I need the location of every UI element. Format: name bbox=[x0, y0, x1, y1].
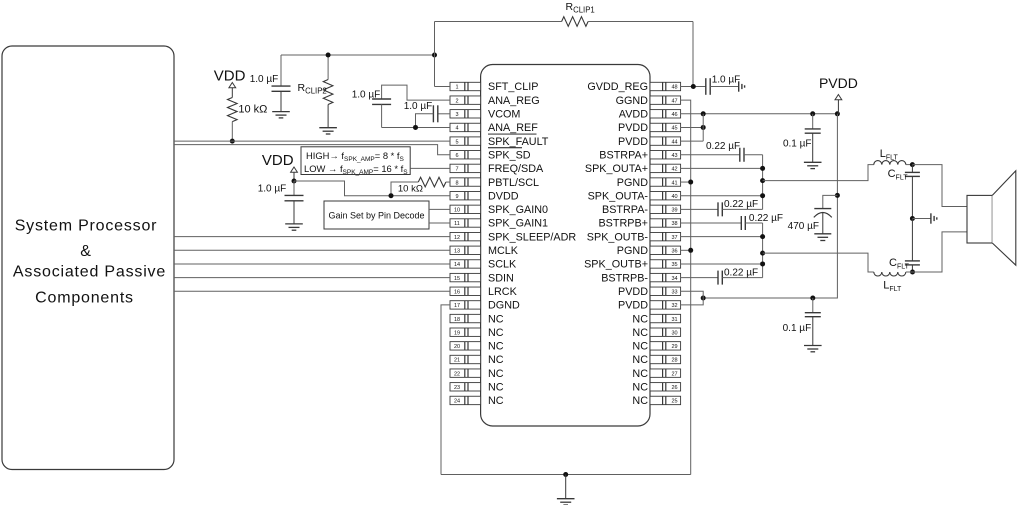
svg-text:SPK_SD: SPK_SD bbox=[488, 149, 531, 161]
svg-text:BSTRPA+: BSTRPA+ bbox=[599, 149, 648, 161]
svg-text:37: 37 bbox=[671, 235, 677, 241]
svg-text:13: 13 bbox=[454, 249, 460, 255]
label 0.22 uF B+ bbox=[749, 213, 783, 224]
capacitor 470uF bulk bbox=[814, 195, 838, 233]
junction filter B bbox=[910, 270, 915, 275]
svg-text:31: 31 bbox=[671, 317, 677, 323]
svg-text:19: 19 bbox=[454, 330, 460, 336]
svg-text:PGND: PGND bbox=[617, 177, 648, 189]
wire pin17 DGND bbox=[441, 305, 450, 475]
svg-text:3: 3 bbox=[455, 112, 458, 118]
svg-text:1: 1 bbox=[455, 85, 458, 91]
inductor LFLT B bbox=[874, 272, 913, 276]
svg-text:16: 16 bbox=[454, 289, 460, 295]
pin 45 PVDD bbox=[618, 122, 681, 134]
pin 36 PGND bbox=[617, 245, 681, 257]
ground DVDD cap bbox=[285, 201, 303, 230]
svg-text:48: 48 bbox=[671, 85, 677, 91]
pin 37 SPK_OUTB- bbox=[587, 231, 681, 243]
wire pin44 PVDD bbox=[681, 114, 704, 141]
wire pin41 PGND bbox=[681, 180, 694, 185]
wire pin9 DVDD bbox=[294, 181, 450, 198]
wire PVDD rail bbox=[701, 114, 840, 301]
svg-text:0.22 µF: 0.22 µF bbox=[724, 199, 758, 210]
wire pin35 SPK_OUTB+ bbox=[681, 263, 763, 265]
pin 39 BSTRPA- bbox=[602, 204, 681, 216]
label RCLIP1 bbox=[566, 1, 595, 15]
svg-text:17: 17 bbox=[454, 303, 460, 309]
svg-text:PVDD: PVDD bbox=[819, 75, 858, 91]
label 0.22 uF A+ bbox=[706, 141, 740, 152]
label CFLT A bbox=[888, 168, 909, 182]
svg-text:46: 46 bbox=[671, 112, 677, 118]
pin 33 PVDD bbox=[618, 286, 681, 298]
svg-text:4: 4 bbox=[455, 126, 458, 132]
annotation box sample rate bbox=[301, 147, 410, 176]
svg-text:27: 27 bbox=[671, 371, 677, 377]
pin 42 SPK_OUTA+ bbox=[585, 163, 681, 175]
wire output A to filter bbox=[763, 165, 874, 181]
speaker bbox=[967, 171, 1016, 266]
ground AVDD cap bbox=[804, 133, 822, 168]
wire speaker B bbox=[913, 232, 968, 272]
svg-text:14: 14 bbox=[454, 262, 460, 268]
pin 26 NC bbox=[632, 382, 680, 394]
pin 9 DVDD bbox=[450, 190, 519, 202]
capacitor 1.0uF ANA_REG bbox=[372, 99, 391, 127]
svg-text:0.22 µF: 0.22 µF bbox=[724, 268, 758, 279]
svg-text:SDIN: SDIN bbox=[488, 272, 514, 284]
capacitor 0.1uF PVDD bottom bbox=[805, 298, 821, 317]
node VDD supply 2 bbox=[262, 152, 298, 184]
svg-text:NC: NC bbox=[632, 395, 648, 407]
svg-text:12: 12 bbox=[454, 235, 460, 241]
svg-text:DGND: DGND bbox=[488, 300, 520, 312]
pin 41 PGND bbox=[617, 177, 681, 189]
pin 17 DGND bbox=[450, 300, 520, 312]
capacitor 0.22uF BSTRPB- bbox=[681, 271, 763, 285]
pin 16 LRCK bbox=[450, 286, 518, 298]
label 0.1 uF AVDD bbox=[783, 138, 812, 149]
svg-text:Gain Set by Pin Decode: Gain Set by Pin Decode bbox=[328, 211, 424, 221]
pin 43 BSTRPA+ bbox=[599, 149, 680, 161]
svg-text:30: 30 bbox=[671, 330, 677, 336]
svg-text:Associated Passive: Associated Passive bbox=[13, 264, 166, 281]
svg-text:Components: Components bbox=[35, 290, 134, 307]
svg-text:22: 22 bbox=[454, 371, 460, 377]
svg-text:20: 20 bbox=[454, 344, 460, 350]
svg-text:1.0 µF: 1.0 µF bbox=[250, 74, 279, 85]
junction filter mid bbox=[910, 216, 915, 221]
pin 44 PVDD bbox=[618, 136, 681, 148]
svg-text:28: 28 bbox=[671, 358, 677, 364]
svg-text:44: 44 bbox=[671, 139, 677, 145]
wire output B node bbox=[760, 223, 765, 278]
svg-text:NC: NC bbox=[632, 382, 648, 394]
resistor RCLIP2 bbox=[323, 55, 333, 128]
wire pin45 PVDD bbox=[681, 125, 706, 130]
pin 35 SPK_OUTB+ bbox=[584, 259, 681, 271]
svg-text:2: 2 bbox=[455, 98, 458, 104]
svg-text:0.1 µF: 0.1 µF bbox=[783, 323, 812, 334]
pin 25 NC bbox=[632, 395, 680, 407]
svg-text:7: 7 bbox=[455, 167, 458, 173]
wire pin6 SPK_SD bbox=[174, 145, 450, 155]
svg-text:BSTRPA-: BSTRPA- bbox=[602, 204, 648, 216]
capacitor CFLT B bbox=[905, 219, 920, 273]
pin 40 SPK_OUTA- bbox=[588, 190, 681, 202]
node VDD supply 1 bbox=[214, 68, 246, 98]
svg-text:PVDD: PVDD bbox=[618, 136, 648, 148]
label 0.1 uF PVDD bbox=[783, 323, 812, 334]
junction filter A bbox=[910, 162, 915, 167]
svg-text:32: 32 bbox=[671, 303, 677, 309]
svg-text:43: 43 bbox=[671, 153, 677, 159]
svg-text:VCOM: VCOM bbox=[488, 109, 520, 121]
pin 12 SPK_SLEEP/ADR bbox=[450, 231, 576, 243]
svg-text:10 kΩ: 10 kΩ bbox=[238, 104, 267, 116]
svg-text:470 µF: 470 µF bbox=[788, 221, 819, 232]
svg-text:NC: NC bbox=[632, 327, 648, 339]
pin 15 SDIN bbox=[450, 272, 514, 284]
svg-text:NC: NC bbox=[632, 313, 648, 325]
svg-text:DVDD: DVDD bbox=[488, 190, 519, 202]
pin 20 NC bbox=[450, 341, 504, 353]
svg-text:NC: NC bbox=[632, 354, 648, 366]
svg-text:SCLK: SCLK bbox=[488, 259, 517, 271]
pin 2 ANA_REG bbox=[450, 95, 540, 107]
system processor block bbox=[2, 46, 174, 470]
annotation box gain bbox=[324, 201, 429, 229]
svg-text:NC: NC bbox=[488, 368, 504, 380]
svg-text:SPK_GAIN1: SPK_GAIN1 bbox=[488, 218, 548, 230]
wire pin5 SPK_FAULT bbox=[174, 140, 450, 142]
label LFLT A bbox=[880, 148, 899, 162]
svg-text:PVDD: PVDD bbox=[618, 286, 648, 298]
svg-text:0.1 µF: 0.1 µF bbox=[783, 138, 812, 149]
wire pin14 SCLK bbox=[174, 263, 450, 265]
label 1.0 uF bbox=[250, 74, 279, 85]
svg-text:NC: NC bbox=[488, 341, 504, 353]
label 1.0 uF GVDD bbox=[712, 74, 741, 85]
wire pin37 SPK_OUTB- bbox=[681, 236, 763, 238]
resistor 10 kOhm PBTL bbox=[391, 177, 450, 195]
svg-text:25: 25 bbox=[671, 399, 677, 405]
svg-text:18: 18 bbox=[454, 317, 460, 323]
svg-text:NC: NC bbox=[488, 354, 504, 366]
pin 7 FREQ/SDA bbox=[450, 163, 544, 175]
pin 18 NC bbox=[450, 313, 504, 325]
svg-text:MCLK: MCLK bbox=[488, 245, 519, 257]
wire pin11 SPK_GAIN1 bbox=[429, 222, 450, 224]
wire pin2 ANA_REG bbox=[382, 85, 450, 100]
svg-text:0.22 µF: 0.22 µF bbox=[706, 141, 740, 152]
svg-text:NC: NC bbox=[488, 327, 504, 339]
svg-text:33: 33 bbox=[671, 289, 677, 295]
label LFLT B bbox=[883, 280, 902, 294]
ground GVDD cap sideways bbox=[739, 81, 745, 91]
svg-text:BSTRPB-: BSTRPB- bbox=[601, 272, 648, 284]
wire RCLIP1 left rail bbox=[435, 22, 562, 56]
ground PVDD cap bbox=[804, 317, 822, 352]
wire pin10 SPK_GAIN0 bbox=[429, 208, 450, 210]
capacitor 0.1uF AVDD bbox=[805, 114, 821, 133]
svg-text:41: 41 bbox=[671, 180, 677, 186]
svg-text:0.22 µF: 0.22 µF bbox=[749, 213, 783, 224]
svg-text:System Processor: System Processor bbox=[15, 218, 158, 235]
pin 4 ANA_REF bbox=[450, 122, 538, 134]
pin 47 GGND bbox=[616, 95, 681, 107]
capacitor 0.22uF BSTRPA- bbox=[681, 202, 763, 216]
wire pin13 MCLK bbox=[174, 249, 450, 251]
inductor LFLT A bbox=[874, 161, 913, 165]
node PVDD supply bbox=[819, 75, 858, 114]
label 0.22 uF A- bbox=[724, 199, 758, 210]
svg-text:LRCK: LRCK bbox=[488, 286, 518, 298]
label 1.0 uF ANA_REG bbox=[352, 90, 381, 101]
svg-text:35: 35 bbox=[671, 262, 677, 268]
wire pin16 LRCK bbox=[174, 290, 450, 292]
svg-text:SPK_OUTB-: SPK_OUTB- bbox=[587, 231, 649, 243]
svg-text:47: 47 bbox=[671, 98, 677, 104]
pin 46 AVDD bbox=[619, 109, 681, 121]
pin 1 SFT_CLIP bbox=[450, 81, 538, 93]
svg-text:SPK_OUTB+: SPK_OUTB+ bbox=[584, 259, 648, 271]
svg-text:38: 38 bbox=[671, 221, 677, 227]
svg-text:NC: NC bbox=[632, 368, 648, 380]
svg-text:15: 15 bbox=[454, 276, 460, 282]
IC U1 48-pin audio amplifier body bbox=[481, 65, 650, 427]
wire bottom ground rail bbox=[441, 472, 691, 477]
wire pin42 SPK_OUTA+ bbox=[681, 167, 763, 169]
label CFLT B bbox=[889, 257, 910, 271]
svg-text:45: 45 bbox=[671, 126, 677, 132]
wire pin7 FREQ/SDA bbox=[410, 167, 450, 169]
wire speaker A bbox=[912, 165, 967, 207]
wire pin46 AVDD rail bbox=[681, 111, 840, 116]
pin 48 GVDD_REG bbox=[587, 81, 680, 93]
svg-text:8: 8 bbox=[455, 180, 458, 186]
svg-text:NC: NC bbox=[632, 341, 648, 353]
capacitor 1.0uF SFT_CLIP bbox=[272, 55, 291, 91]
svg-text:SPK_OUTA-: SPK_OUTA- bbox=[588, 190, 649, 202]
svg-text:ANA_REF: ANA_REF bbox=[488, 122, 538, 134]
pin 28 NC bbox=[632, 354, 680, 366]
label 10 kOhm bbox=[238, 104, 267, 116]
svg-text:36: 36 bbox=[671, 249, 677, 255]
pin 38 BSTRPB+ bbox=[598, 218, 680, 230]
svg-text:26: 26 bbox=[671, 385, 677, 391]
svg-text:SFT_CLIP: SFT_CLIP bbox=[488, 81, 538, 93]
wire pin33 pin32 PVDD bbox=[681, 291, 704, 305]
wire pin36 PGND bbox=[681, 248, 694, 253]
svg-text:40: 40 bbox=[671, 194, 677, 200]
svg-text:42: 42 bbox=[671, 167, 677, 173]
ground main bbox=[557, 475, 575, 505]
svg-text:34: 34 bbox=[671, 276, 677, 282]
svg-text:BSTRPB+: BSTRPB+ bbox=[598, 218, 648, 230]
label 0.22 uF B- bbox=[724, 268, 758, 279]
junction on SPK_FAULT line bbox=[230, 139, 235, 144]
pin 6 SPK_SD bbox=[450, 148, 531, 162]
capacitor 1.0uF DVDD bbox=[285, 181, 304, 201]
pin 29 NC bbox=[632, 341, 680, 353]
svg-text:5: 5 bbox=[455, 139, 458, 145]
svg-text:10: 10 bbox=[454, 208, 460, 214]
capacitor 0.22uF BSTRPB+ bbox=[681, 216, 763, 230]
svg-text:1.0 µF: 1.0 µF bbox=[712, 74, 741, 85]
svg-text:PBTL/SCL: PBTL/SCL bbox=[488, 177, 539, 189]
svg-text:1.0 µF: 1.0 µF bbox=[258, 183, 287, 194]
wire pin48 GVDD_REG bbox=[681, 84, 706, 89]
pin 32 PVDD bbox=[618, 300, 681, 312]
resistor 10 kOhm pull-up R1 bbox=[228, 98, 238, 142]
svg-text:6: 6 bbox=[455, 153, 458, 159]
svg-text:24: 24 bbox=[454, 399, 460, 405]
wire pin15 SDIN bbox=[174, 277, 450, 279]
label 1.0 uF DVDD bbox=[258, 183, 287, 194]
svg-text:NC: NC bbox=[488, 395, 504, 407]
svg-text:VDD: VDD bbox=[214, 68, 246, 85]
svg-text:SPK_FAULT: SPK_FAULT bbox=[488, 136, 549, 148]
svg-text:9: 9 bbox=[455, 194, 458, 200]
svg-text:AVDD: AVDD bbox=[619, 109, 648, 121]
wire pin40 SPK_OUTA- bbox=[681, 195, 763, 197]
svg-text:GVDD_REG: GVDD_REG bbox=[587, 81, 648, 93]
svg-text:&: & bbox=[80, 243, 91, 260]
svg-text:NC: NC bbox=[488, 382, 504, 394]
svg-text:23: 23 bbox=[454, 385, 460, 391]
capacitor 0.22uF BSTRPA+ bbox=[681, 148, 763, 162]
svg-text:ANA_REG: ANA_REG bbox=[488, 95, 540, 107]
pin 14 SCLK bbox=[450, 259, 517, 271]
svg-text:39: 39 bbox=[671, 208, 677, 214]
resistor RCLIP1 bbox=[562, 17, 589, 27]
label RCLIP2 bbox=[298, 82, 327, 96]
svg-text:PVDD: PVDD bbox=[618, 300, 648, 312]
ground for SFT_CLIP cap bbox=[272, 91, 290, 118]
wire pin12 SPK_SLEEP/ADR bbox=[174, 236, 450, 238]
svg-text:PGND: PGND bbox=[617, 245, 648, 257]
svg-text:SPK_SLEEP/ADR: SPK_SLEEP/ADR bbox=[488, 231, 576, 243]
ground 470uF cap bbox=[814, 234, 831, 241]
svg-text:SPK_GAIN0: SPK_GAIN0 bbox=[488, 204, 548, 216]
wire pin47 GGND rail bbox=[681, 100, 691, 474]
label 10 kOhm PBTL bbox=[398, 184, 423, 195]
pin 24 NC bbox=[450, 395, 504, 407]
ground for RCLIP2 bbox=[319, 128, 337, 134]
svg-text:FREQ/SDA: FREQ/SDA bbox=[488, 163, 544, 175]
svg-text:SPK_OUTA+: SPK_OUTA+ bbox=[585, 163, 648, 175]
pin 11 SPK_GAIN1 bbox=[450, 218, 548, 230]
svg-text:1.0 µF: 1.0 µF bbox=[352, 90, 381, 101]
pin 27 NC bbox=[632, 368, 680, 380]
capacitor CFLT A bbox=[905, 165, 920, 219]
svg-text:GGND: GGND bbox=[616, 95, 649, 107]
svg-text:PVDD: PVDD bbox=[618, 122, 648, 134]
pin 10 SPK_GAIN0 bbox=[450, 204, 548, 216]
pin 21 NC bbox=[450, 354, 504, 366]
pin 30 NC bbox=[632, 327, 680, 339]
label 1.0 uF VCOM bbox=[404, 101, 433, 112]
svg-text:29: 29 bbox=[671, 344, 677, 350]
wire pin4 ANA_REF bbox=[382, 125, 450, 130]
wire output B to filter bbox=[763, 253, 874, 272]
pin 19 NC bbox=[450, 327, 504, 339]
label 470 uF bbox=[788, 221, 819, 232]
svg-text:NC: NC bbox=[488, 313, 504, 325]
pin 3 VCOM bbox=[450, 109, 520, 121]
pin 31 NC bbox=[632, 313, 680, 325]
svg-text:11: 11 bbox=[454, 221, 460, 227]
wire node SFT_CLIP top bbox=[281, 53, 437, 58]
pin 22 NC bbox=[450, 368, 504, 380]
wire RCLIP1 right rail bbox=[588, 22, 693, 87]
pin 13 MCLK bbox=[450, 245, 519, 257]
pin 34 BSTRPB- bbox=[601, 272, 680, 284]
pin 23 NC bbox=[450, 382, 504, 394]
capacitor 1.0uF VCOM bbox=[416, 105, 451, 127]
capacitor 1.0uF GVDD_REG bbox=[706, 78, 739, 95]
svg-text:21: 21 bbox=[454, 358, 460, 364]
pin 8 PBTL/SCL bbox=[450, 177, 539, 189]
pin 5 SPK_FAULT bbox=[450, 134, 549, 148]
ground filter mid sideways bbox=[912, 213, 936, 223]
svg-text:VDD: VDD bbox=[262, 152, 294, 169]
wire pin1 SFT_CLIP bbox=[435, 55, 451, 87]
svg-text:1.0 µF: 1.0 µF bbox=[404, 101, 433, 112]
svg-text:10 kΩ: 10 kΩ bbox=[398, 184, 423, 195]
wire output A node bbox=[760, 155, 765, 210]
